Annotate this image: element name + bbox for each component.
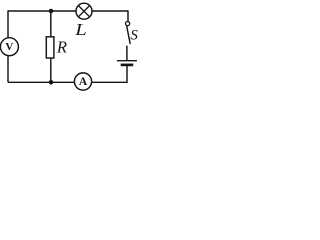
wire right vertical (switch to battery) [126, 46, 128, 60]
label L [74, 21, 87, 40]
wire left vertical upper [7, 10, 9, 38]
voltmeter V circle [0, 38, 18, 56]
lamp L circle [76, 3, 92, 19]
node junction dot bottom [49, 80, 54, 85]
svg-text:S: S [130, 27, 138, 43]
svg-text:L: L [74, 21, 87, 40]
switch S blade [127, 26, 131, 44]
wire top-right horizontal [92, 10, 128, 12]
wire bottom-right horizontal [92, 81, 128, 83]
node junction dot top [49, 9, 54, 14]
svg-text:R: R [56, 38, 67, 57]
ammeter A circle [74, 73, 91, 90]
wire resistor branch lower [50, 58, 52, 82]
battery short plate [121, 64, 134, 67]
wire right vertical top (corner to switch) [127, 10, 129, 21]
resistor R box [46, 37, 54, 58]
svg-text:V: V [5, 41, 13, 53]
wire left vertical lower [7, 56, 9, 83]
lamp L cross [78, 6, 89, 17]
battery long plate [117, 60, 137, 62]
svg-text:A: A [79, 76, 88, 88]
wire bottom-left horizontal [8, 81, 74, 83]
switch S terminal circle [126, 22, 130, 26]
wire top-left horizontal [8, 10, 76, 12]
wire right vertical (battery to bottom) [126, 66, 128, 83]
wire resistor branch upper [50, 11, 52, 37]
